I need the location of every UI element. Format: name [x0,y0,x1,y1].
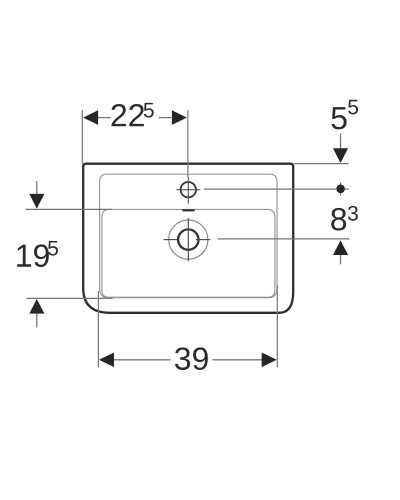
dimension 19.5 bottom arrow [29,299,44,328]
overflow slot [182,209,194,211]
dimension 5.5 arrow [333,134,348,163]
dimension 39 extension line right [276,285,278,368]
dimension label 8.3 [331,206,358,231]
dimension 19.5 top arrow [29,181,44,209]
dimension 39 extension line left [97,291,99,368]
washbasin bowl [102,209,275,297]
drain outer circle [169,220,208,259]
dimension 19.5 bottom reference line [27,297,113,299]
washbasin rim [100,174,277,298]
dimension 39 line and arrows [99,353,277,368]
drain crosshair [163,218,210,261]
drain leader line right [218,238,350,240]
washbasin outer outline [83,164,293,313]
dimension 19.5 top reference line [26,208,113,210]
dimension 22.5 line and arrows [83,110,187,125]
dimension label 5.5 [332,100,359,130]
datum dot [336,185,345,194]
dimension 8.3 arrow [333,240,348,264]
dimension label 39 [175,347,208,370]
dimension 22.5 extension line right [187,110,189,177]
dimension label 22.5 [111,103,153,126]
drain inner circle [178,229,198,249]
dimension label 19.5 [17,241,58,267]
faucet leader line to datum dot [204,182,349,195]
top edge extension line right [294,163,349,165]
faucet hole [176,177,200,204]
dimension 22.5 extension line left [81,110,83,164]
